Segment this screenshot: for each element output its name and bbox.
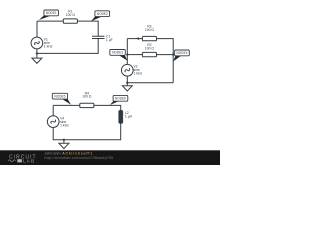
resistor R4 — [80, 103, 94, 107]
svg-text:100 Ω: 100 Ω — [145, 46, 155, 50]
junction dot V1 bottom — [36, 52, 38, 54]
voltage source V2 — [121, 64, 133, 76]
node NODE3 flag — [118, 55, 127, 61]
ground G2 — [126, 83, 128, 86]
junction dot R2 left — [126, 53, 128, 55]
junction dot R2 right — [172, 53, 174, 55]
svg-text:1 µH: 1 µH — [125, 115, 133, 119]
voltage source V4 — [47, 116, 59, 128]
junction dot V2 bottom — [126, 82, 128, 84]
svg-text:NODE1: NODE1 — [46, 11, 57, 15]
svg-text:100 Ω: 100 Ω — [66, 13, 76, 17]
wire V1 top — [36, 21, 38, 37]
inductor L2 — [119, 110, 123, 123]
resistor R1 — [63, 19, 77, 23]
junction dot on top wire — [137, 37, 139, 39]
resistor R2 — [142, 52, 156, 56]
junction dot ground tap — [63, 139, 65, 141]
svg-text:1 µF: 1 µF — [106, 38, 113, 42]
svg-text:1 kHz: 1 kHz — [60, 124, 69, 128]
node NODE5 flag — [61, 98, 71, 105]
svg-text:NODE5: NODE5 — [54, 94, 65, 98]
wire top from corner to R4 — [53, 104, 80, 106]
wire V1 bottom to junction — [36, 49, 38, 54]
wire R1 right to corner then down to C1 — [77, 21, 98, 36]
wire V4 bottom to bottom run and up to L bottom — [53, 123, 121, 139]
ground G3 — [63, 140, 65, 144]
svg-text:NODE2: NODE2 — [97, 12, 108, 16]
capacitor C1 — [92, 36, 105, 38]
svg-text:100 Ω: 100 Ω — [82, 95, 92, 99]
svg-text:http://circuitlab.com/circuit/: http://circuitlab.com/circuit/75badep755 — [45, 156, 114, 160]
svg-text:100 Ω: 100 Ω — [145, 28, 155, 32]
wire R2 right — [157, 54, 174, 56]
svg-text:NODE4: NODE4 — [177, 51, 188, 55]
resistor R3 — [142, 36, 156, 40]
svg-text:1 kHz: 1 kHz — [44, 45, 53, 49]
wire R2 branch left — [127, 54, 142, 56]
wire top branch to R3 — [127, 38, 142, 40]
wire top from corner to R1 left — [37, 20, 63, 22]
wire R3 right to corner and down — [157, 39, 174, 83]
node NODE2 flag — [91, 16, 101, 21]
ground G1 — [36, 53, 38, 58]
svg-text:John-lund / ACkirchsoff1: John-lund / ACkirchsoff1 — [45, 152, 93, 156]
wire V2 bottom and bottom run — [127, 76, 173, 83]
voltage source V1 — [31, 37, 43, 49]
node NODE6 flag — [110, 101, 120, 105]
svg-text:NODE3: NODE3 — [112, 51, 123, 55]
wire R4 right to corner then down to L — [94, 105, 121, 110]
node NODE1 flag — [39, 15, 51, 20]
svg-text:1 kHz: 1 kHz — [134, 72, 143, 76]
svg-text:LAB: LAB — [23, 158, 35, 164]
svg-text:NODE6: NODE6 — [115, 97, 126, 101]
wire V4 top — [52, 105, 54, 116]
wire bottom from junction to under C1 and up — [37, 39, 98, 54]
wire left vertical — [126, 39, 128, 65]
node NODE4 flag — [173, 55, 181, 61]
